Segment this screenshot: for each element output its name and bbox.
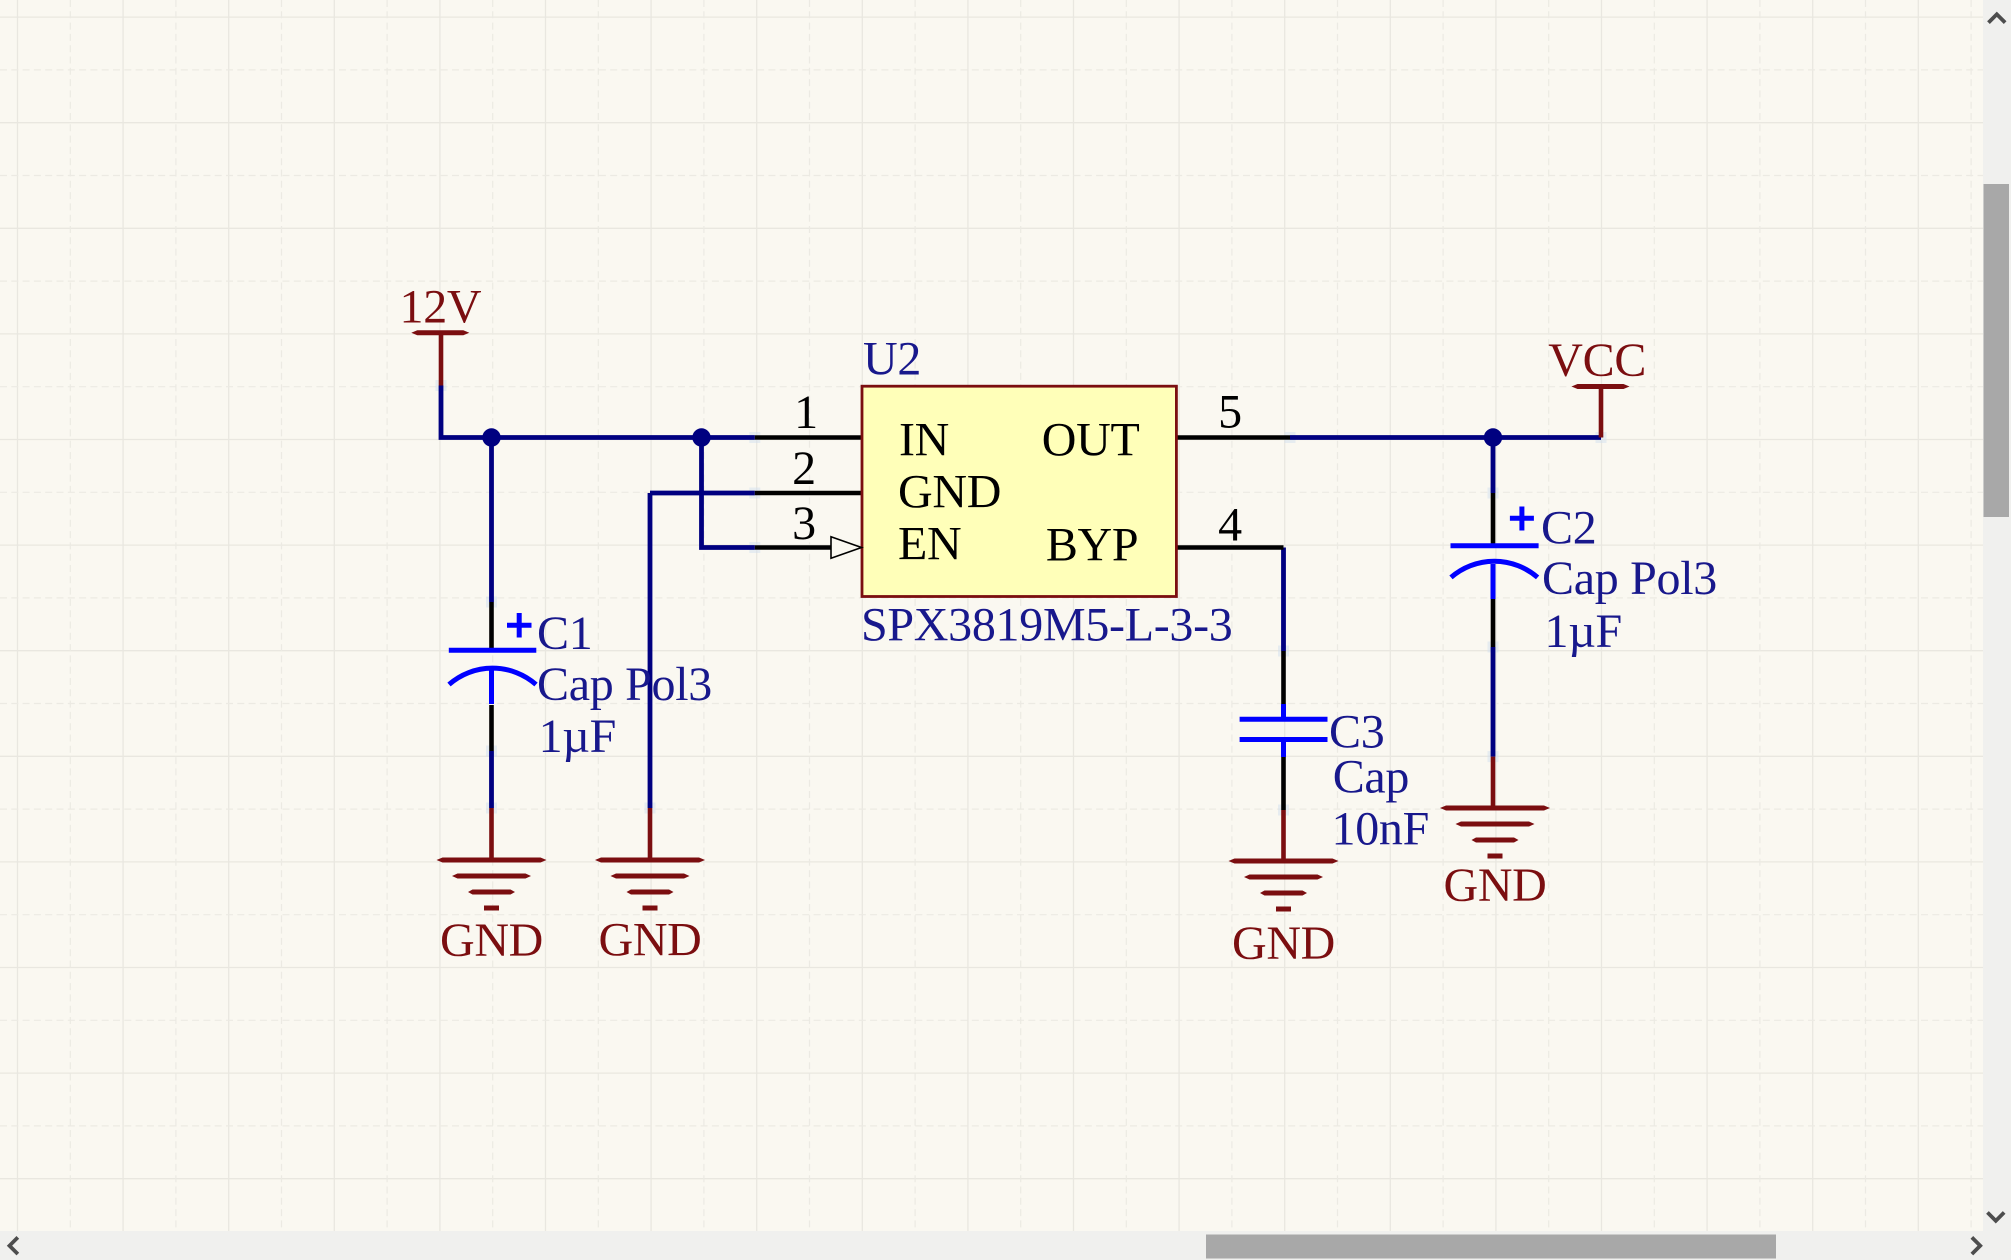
svg-text:GND: GND bbox=[1443, 859, 1546, 912]
svg-text:GND: GND bbox=[898, 466, 1001, 519]
svg-text:IN: IN bbox=[899, 414, 949, 467]
svg-text:10nF: 10nF bbox=[1332, 803, 1430, 856]
svg-text:EN: EN bbox=[898, 518, 961, 571]
svg-text:1µF: 1µF bbox=[1545, 605, 1622, 658]
svg-text:GND: GND bbox=[440, 914, 543, 967]
svg-text:4: 4 bbox=[1218, 499, 1242, 552]
svg-text:5: 5 bbox=[1218, 386, 1242, 439]
svg-text:Cap Pol3: Cap Pol3 bbox=[537, 658, 712, 711]
svg-text:C2: C2 bbox=[1541, 502, 1596, 555]
svg-text:1: 1 bbox=[794, 386, 818, 439]
svg-text:2: 2 bbox=[792, 442, 816, 495]
svg-text:GND: GND bbox=[1232, 917, 1335, 970]
svg-text:Cap: Cap bbox=[1333, 750, 1409, 803]
svg-text:SPX3819M5-L-3-3: SPX3819M5-L-3-3 bbox=[861, 599, 1233, 652]
svg-text:C1: C1 bbox=[537, 607, 592, 660]
svg-text:Cap Pol3: Cap Pol3 bbox=[1542, 552, 1717, 605]
svg-text:GND: GND bbox=[598, 914, 701, 967]
svg-text:1µF: 1µF bbox=[539, 710, 616, 763]
svg-text:OUT: OUT bbox=[1042, 414, 1140, 467]
svg-text:3: 3 bbox=[792, 497, 816, 550]
svg-text:VCC: VCC bbox=[1548, 334, 1646, 387]
svg-text:12V: 12V bbox=[400, 280, 482, 333]
svg-text:U2: U2 bbox=[863, 333, 921, 386]
svg-text:BYP: BYP bbox=[1046, 519, 1138, 572]
